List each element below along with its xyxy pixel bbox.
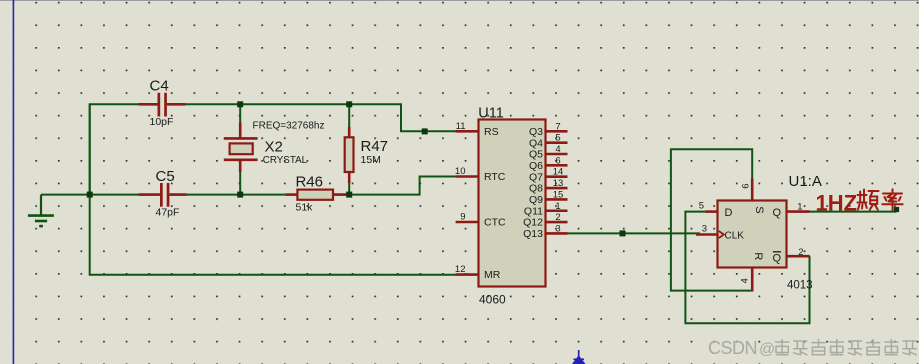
svg-text:6: 6 (555, 155, 560, 166)
svg-text:FREQ=32768hz: FREQ=32768hz (253, 121, 325, 132)
svg-text:CLK: CLK (725, 230, 745, 241)
svg-text:4013: 4013 (787, 280, 813, 292)
svg-text:Q: Q (772, 252, 781, 264)
svg-text:Q6: Q6 (529, 160, 543, 172)
svg-text:1: 1 (555, 201, 560, 212)
svg-text:7: 7 (555, 121, 560, 132)
svg-text:D: D (725, 207, 733, 219)
svg-text:RTC: RTC (484, 171, 506, 183)
svg-text:12: 12 (455, 264, 466, 275)
svg-text:RS: RS (484, 126, 499, 138)
svg-text:Q5: Q5 (529, 149, 543, 161)
svg-text:4: 4 (739, 278, 750, 283)
svg-text:10: 10 (455, 166, 466, 177)
svg-text:4: 4 (555, 144, 560, 155)
svg-text:Q11: Q11 (524, 205, 543, 217)
svg-text:51k: 51k (296, 202, 314, 214)
svg-text:@: @ (759, 341, 775, 358)
svg-text:9: 9 (460, 212, 465, 223)
svg-text:Q9: Q9 (529, 194, 543, 206)
svg-text:C5: C5 (156, 168, 175, 185)
svg-text:10pF: 10pF (150, 116, 174, 128)
svg-text:Q4: Q4 (529, 137, 543, 149)
svg-text:5: 5 (699, 201, 704, 212)
svg-text:2: 2 (798, 247, 803, 258)
svg-text:C4: C4 (150, 78, 169, 95)
svg-text:5: 5 (555, 133, 560, 144)
svg-text:CSDN: CSDN (708, 338, 757, 358)
svg-text:6: 6 (741, 184, 752, 189)
svg-text:Q13: Q13 (523, 228, 543, 240)
svg-text:13: 13 (553, 178, 564, 189)
svg-text:1HZ: 1HZ (816, 191, 858, 216)
svg-text:MR: MR (484, 269, 501, 281)
svg-text:U11: U11 (478, 105, 504, 121)
svg-text:X2: X2 (265, 139, 283, 156)
svg-text:U1:A: U1:A (789, 173, 822, 190)
svg-text:CRYSTAL: CRYSTAL (263, 155, 308, 166)
svg-text:1: 1 (797, 201, 802, 212)
svg-text:4060: 4060 (479, 293, 506, 307)
svg-text:3: 3 (555, 223, 560, 234)
svg-text:CTC: CTC (484, 217, 506, 229)
svg-text:14: 14 (553, 167, 564, 178)
svg-text:15: 15 (553, 189, 564, 200)
svg-text:S: S (753, 206, 765, 213)
svg-text:47pF: 47pF (156, 207, 180, 219)
svg-text:R47: R47 (361, 138, 389, 155)
svg-text:3: 3 (702, 223, 707, 234)
svg-text:Q7: Q7 (529, 171, 543, 183)
svg-text:Q3: Q3 (529, 126, 543, 138)
svg-text:Q: Q (772, 207, 781, 219)
svg-text:R: R (752, 252, 764, 260)
svg-text:15M: 15M (361, 154, 381, 166)
svg-text:11: 11 (456, 121, 466, 132)
svg-text:Q12: Q12 (523, 217, 543, 229)
svg-text:R46: R46 (296, 174, 324, 191)
svg-text:Q8: Q8 (529, 183, 543, 195)
svg-text:2: 2 (555, 212, 560, 223)
